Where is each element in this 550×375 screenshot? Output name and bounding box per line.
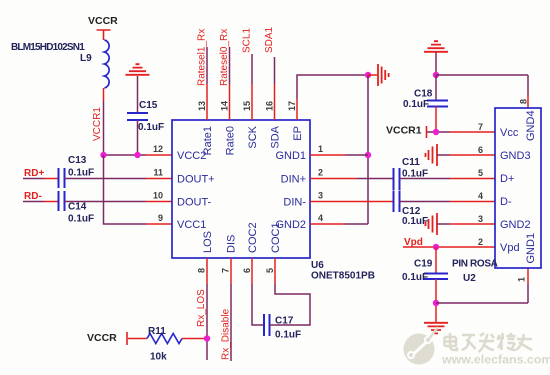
svg-text:SDA: SDA [270, 125, 282, 148]
svg-text:0.1uF: 0.1uF [402, 216, 428, 227]
junction C18/GND4 node [433, 72, 439, 78]
wire L9 to VCC net (red stub) [103, 88, 105, 101]
pin stub 6 (COC2) [251, 258, 253, 284]
svg-text:C11: C11 [402, 157, 420, 168]
power tick VCCR [126, 332, 128, 345]
svg-text:C19: C19 [414, 259, 433, 270]
svg-text:ONET8501PB: ONET8501PB [311, 271, 375, 282]
junction EP node [365, 72, 371, 78]
svg-text:C13: C13 [68, 155, 87, 166]
pin stub 14 [229, 84, 231, 120]
ground (inverted, above C15) [126, 64, 150, 75]
svg-text:DIN-: DIN- [283, 197, 306, 209]
svg-text:L9: L9 [80, 53, 92, 64]
wire C13 to pin11 [65, 178, 147, 180]
ground (bottom, below C19) [424, 323, 448, 334]
capacitor C13 [59, 168, 65, 188]
wire ground to C15 [137, 76, 139, 113]
junction R11/LOS [204, 335, 210, 341]
pin stub 9 [146, 223, 172, 225]
pin stub 12 [146, 154, 172, 156]
pin stub 4 [310, 223, 345, 225]
svg-text:DIN+: DIN+ [281, 174, 306, 186]
svg-text:COC2: COC2 [247, 222, 259, 253]
wire GND1 horizontal y303 [436, 302, 528, 304]
wire GND1 rise [527, 284, 529, 303]
svg-text:VCCR: VCCR [87, 332, 117, 344]
svg-text:SCL1: SCL1 [242, 28, 253, 53]
svg-text:GND1: GND1 [525, 233, 537, 264]
wire C11 to D+ [400, 178, 451, 180]
svg-text:3: 3 [478, 214, 483, 224]
wire RD+ lead [23, 178, 44, 180]
wire pin15 net [251, 54, 253, 84]
wire GND4 drop [527, 75, 529, 95]
power symbol VCCR (top-left) [88, 15, 118, 40]
svg-text:2: 2 [318, 168, 323, 178]
junction VCCR1/C18 [433, 129, 439, 135]
pin stub 1 (U2 GND1) [527, 268, 529, 284]
ground (rotated left, GND3) [426, 144, 438, 166]
pin stub 3 (DIN-) [310, 201, 393, 203]
capacitor C17 [264, 314, 270, 336]
pin stub 2 [310, 178, 357, 180]
svg-text:1: 1 [517, 277, 527, 282]
wire R11 to LOS junction [182, 338, 207, 340]
svg-text:PIN ROSA: PIN ROSA [452, 259, 498, 270]
svg-text:13: 13 [197, 101, 207, 111]
wire VCCR1 vertical net [103, 101, 105, 155]
svg-text:0.1uF: 0.1uF [68, 214, 94, 225]
wire C18 top [435, 75, 437, 100]
junction GND1 node [365, 152, 371, 158]
svg-text:10: 10 [153, 191, 163, 201]
svg-text:VCCR: VCCR [88, 15, 118, 27]
wire pin13 net [206, 47, 208, 84]
svg-text:6: 6 [478, 145, 483, 155]
svg-text:12: 12 [153, 144, 163, 154]
pin stub 11 [146, 178, 172, 180]
svg-text:0.1uF: 0.1uF [403, 99, 429, 110]
svg-text:Ratesel1_Rx: Ratesel1_Rx [197, 29, 208, 86]
svg-text:R11: R11 [148, 326, 166, 337]
resistor R11 [147, 334, 182, 344]
wire ground vertical net x368 [367, 75, 369, 224]
svg-text:DOUT-: DOUT- [177, 197, 212, 209]
svg-text:C18: C18 [414, 89, 433, 100]
wire RD+ to C13 (red) [44, 178, 58, 180]
svg-text:GND3: GND3 [500, 150, 531, 162]
pin stub 8 (U2 GND4) [527, 95, 529, 108]
junction Vpd/C19 [433, 244, 439, 250]
wire VCCR1 to Vcc [427, 131, 450, 133]
svg-text:www.elecfans.com: www.elecfans.com [441, 353, 550, 367]
wire C19 top [435, 247, 437, 273]
svg-text:GND2: GND2 [500, 219, 531, 231]
pin stub 3 (U2 GND2) [450, 223, 495, 225]
capacitor C12 [394, 191, 400, 213]
inductor L9 [105, 40, 110, 88]
wire COC1 loop to C17 [270, 284, 311, 325]
svg-text:17: 17 [287, 101, 297, 111]
svg-text:6: 6 [242, 268, 252, 273]
svg-text:7: 7 [478, 122, 483, 132]
svg-text:RD+: RD+ [24, 168, 44, 179]
junction at C15/VCC2 [134, 152, 140, 158]
svg-text:8: 8 [197, 268, 207, 273]
pin stub 16 [274, 84, 276, 120]
svg-text:Vpd: Vpd [500, 242, 520, 254]
svg-text:DIS: DIS [226, 235, 238, 253]
svg-text:15: 15 [242, 101, 252, 111]
op-amp U6 body outline [172, 120, 310, 258]
wire C12 to D- [400, 201, 451, 203]
junction at L9/VCC2 [100, 152, 106, 158]
wire VCC vertical to VCC1 [104, 155, 147, 224]
wire stub to EP ground [368, 74, 377, 76]
capacitor C15 [127, 113, 148, 120]
transistor U2 body outline (PIN ROSA) [495, 108, 541, 268]
wire Vpd row [403, 246, 495, 248]
pin stub 7 (U2 Vcc) [450, 131, 495, 133]
svg-text:0.1uF: 0.1uF [275, 330, 301, 341]
pin stub 1 [310, 154, 345, 156]
svg-text:3: 3 [318, 191, 323, 201]
svg-text:Rate0: Rate0 [225, 126, 237, 155]
svg-text:Vcc: Vcc [500, 127, 519, 139]
svg-text:C14: C14 [68, 202, 87, 213]
svg-text:10k: 10k [150, 352, 167, 363]
svg-text:SDA1: SDA1 [264, 26, 275, 53]
pin stub 5 (COC1) [274, 258, 276, 284]
svg-text:VCC1: VCC1 [177, 219, 206, 231]
svg-text:9: 9 [158, 213, 163, 223]
wire pin14 net [229, 47, 231, 84]
wire pin4 to gnd net [345, 223, 368, 225]
svg-text:Ratesel0_Rx: Ratesel0_Rx [219, 29, 230, 86]
pin stub 6 (U2 GND3) [450, 154, 495, 156]
wire RD- lead [23, 201, 44, 203]
wire C14 to pin10 [65, 201, 147, 203]
wire LOS net down [206, 284, 208, 360]
wire RD- to C14 (red) [44, 201, 58, 203]
ground (inverted, above C18) [424, 41, 448, 52]
svg-text:SCK: SCK [247, 125, 259, 148]
wire COC2 to C17 [252, 284, 264, 325]
svg-text:4: 4 [318, 213, 323, 223]
svg-text:5: 5 [265, 268, 275, 273]
svg-text:GND4: GND4 [525, 110, 537, 141]
pin stub 17 [296, 99, 298, 120]
pin stub D+ [450, 178, 495, 180]
svg-text:5: 5 [478, 168, 483, 178]
wire VCC2 net horizontal y155 [104, 154, 147, 156]
svg-text:D+: D+ [500, 173, 514, 185]
wire GND3 [437, 154, 450, 156]
svg-text:1: 1 [318, 144, 323, 154]
capacitor C14 [59, 191, 65, 211]
ground (rotated left, GND2) [426, 213, 438, 235]
capacitor C18 [427, 101, 448, 107]
svg-text:8: 8 [519, 99, 529, 104]
capacitor C19 [424, 274, 448, 280]
svg-text:0.1uF: 0.1uF [68, 168, 94, 179]
wire pin2 to C11 [357, 178, 393, 180]
junction C19/GND1 [433, 300, 439, 306]
svg-text:D-: D- [500, 196, 512, 208]
svg-text:DOUT+: DOUT+ [177, 174, 215, 186]
svg-text:0.1uF: 0.1uF [402, 272, 428, 283]
ground (rotated right, EP) [378, 64, 389, 86]
svg-text:VCCR1: VCCR1 [386, 125, 422, 137]
capacitor C11 [394, 168, 400, 190]
pin stub 8 (LOS) [206, 258, 208, 284]
svg-text:GND1: GND1 [275, 150, 306, 162]
pin stub 7 (DIS) [230, 258, 232, 284]
wire EP up and right [297, 75, 368, 99]
svg-text:2: 2 [478, 237, 483, 247]
pin stub 13 [206, 84, 208, 120]
svg-text:Rx_LOS: Rx_LOS [196, 289, 207, 327]
svg-text:BLM15HD102SN1: BLM15HD102SN1 [11, 42, 85, 53]
pin stub 10 [146, 201, 172, 203]
svg-text:0.1uF: 0.1uF [138, 122, 164, 133]
svg-text:U2: U2 [463, 273, 476, 284]
svg-text:7: 7 [221, 268, 231, 273]
watermark chinese glyphs [445, 333, 533, 352]
svg-text:RD-: RD- [24, 191, 42, 202]
svg-text:EP: EP [292, 126, 304, 141]
svg-text:C15: C15 [139, 100, 158, 111]
wire VCCR to R11 [128, 338, 147, 340]
svg-text:U6: U6 [311, 260, 324, 271]
pin stub 15 [251, 84, 253, 120]
wire ground to C18 node [435, 53, 437, 76]
pin stub D- [450, 201, 495, 203]
wire C18 bottom to VCCR1 row [435, 107, 437, 133]
svg-text:14: 14 [220, 101, 230, 111]
svg-text:LOS: LOS [202, 231, 214, 253]
wire pin16 net [274, 57, 276, 84]
svg-text:16: 16 [265, 101, 275, 111]
wire DIS net down [230, 284, 232, 361]
watermark logo [404, 327, 439, 365]
wire C15 to pin12 net [137, 120, 139, 155]
svg-text:Rx_Disable: Rx_Disable [221, 308, 232, 360]
svg-text:Rate1: Rate1 [202, 126, 214, 155]
wire C19 bottom [435, 279, 437, 322]
svg-text:4: 4 [478, 191, 483, 201]
wire GND2 [437, 223, 450, 225]
wire pin1 to gnd net [345, 154, 368, 156]
svg-text:11: 11 [153, 168, 163, 178]
svg-text:COC1: COC1 [270, 222, 282, 253]
svg-text:VCCR1: VCCR1 [92, 107, 103, 141]
power tick VCCR1 [426, 126, 428, 138]
wire GND4 horizontal [436, 74, 528, 76]
